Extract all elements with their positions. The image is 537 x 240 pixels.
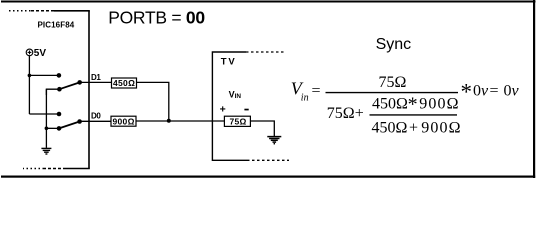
resistor R2 900 ohm — [111, 116, 136, 126]
resistor R1 450 ohm — [112, 78, 137, 88]
svg-text:+: + — [220, 104, 226, 116]
switch S0 common node — [77, 119, 82, 124]
node junction on 5V rail at D1 branch — [28, 74, 32, 78]
svg-text:D0: D0 — [91, 111, 101, 120]
resistor R3 75 ohm — [224, 116, 250, 126]
svg-text:*: * — [408, 93, 418, 115]
svg-text:PIC16F84: PIC16F84 — [38, 21, 75, 30]
svg-text:5V: 5V — [34, 48, 47, 59]
svg-text:900Ω: 900Ω — [419, 96, 459, 113]
label - polarity — [244, 109, 248, 111]
svg-text:900Ω: 900Ω — [113, 116, 135, 126]
switch S1 (D1) upper contact — [57, 73, 62, 78]
IC U1 PIC16F84 box (dashed outline) — [9, 11, 90, 169]
svg-text:0v: 0v — [504, 83, 520, 100]
wire D1 upper contact branch — [29, 74, 59, 76]
svg-text:0v: 0v — [473, 83, 489, 100]
wire D0 from switch to resistor R2 — [80, 120, 111, 122]
TV box (partial, dashed continuation) — [212, 52, 289, 160]
node A junction (R1 path joins R2 wire) — [167, 119, 171, 123]
svg-text:PORTB = 00: PORTB = 00 — [108, 8, 205, 28]
svg-text:=: = — [312, 82, 321, 99]
svg-text:TV: TV — [221, 56, 237, 67]
switch S0 (D0) lower contact — [57, 126, 62, 131]
svg-text:=: = — [490, 83, 499, 100]
wire from S1 lower contact to ground rail — [46, 89, 59, 95]
svg-text:900Ω: 900Ω — [421, 120, 461, 137]
wire from R1 right going to node A — [137, 82, 169, 120]
power source 5V — [26, 49, 33, 56]
ground (TV side) — [267, 137, 281, 144]
wire from R2 to TV input — [136, 120, 224, 122]
wire from S0 lower contact to ground rail — [46, 127, 59, 129]
switch S0 arm — [59, 122, 80, 129]
svg-text:Sync: Sync — [376, 36, 412, 53]
svg-text:+: + — [409, 119, 418, 136]
formula Vin = 75/(75+450*900/(450+900)) * 0v = 0v — [291, 74, 520, 137]
formula: main fraction bar — [326, 92, 459, 94]
node junction ground rail at D0 lower contact — [45, 127, 49, 131]
switch S1 arm — [59, 82, 79, 89]
switch S1 (D1) lower contact — [57, 87, 62, 92]
wire D1 from switch to resistor R1 — [80, 81, 112, 83]
svg-text:D1: D1 — [91, 73, 101, 82]
svg-text:75Ω: 75Ω — [379, 74, 407, 91]
formula: inner fraction bar — [370, 114, 458, 116]
svg-text:*: * — [461, 79, 473, 104]
wire 5V rail vertical — [28, 56, 30, 114]
svg-text:450Ω: 450Ω — [113, 78, 135, 88]
svg-text:75Ω+: 75Ω+ — [327, 105, 364, 122]
svg-text:in: in — [301, 93, 309, 104]
switch S0 (D0) upper contact — [57, 112, 62, 117]
svg-text:IN: IN — [235, 93, 242, 100]
switch S1 common node — [77, 80, 82, 85]
ground rail vertical — [45, 89, 47, 148]
wire 5V rail corner to D0 upper contact — [29, 113, 59, 115]
svg-text:75Ω: 75Ω — [230, 117, 247, 127]
svg-text:450Ω: 450Ω — [372, 120, 408, 137]
svg-text:450Ω: 450Ω — [372, 96, 408, 113]
ground (left) — [41, 148, 51, 154]
wire from R3 to TV ground — [250, 121, 274, 136]
